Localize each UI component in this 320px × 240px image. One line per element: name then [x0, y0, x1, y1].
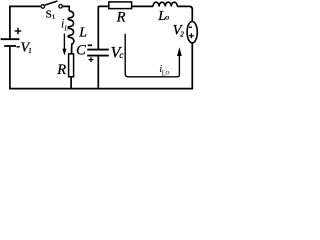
wire: battery bottom down to bottom rail [9, 46, 11, 89]
switch S1 contact circle right [59, 5, 63, 9]
wire: coil bottom to resistor R [71, 47, 73, 54]
wire: Lo to top-right corner and down to source V2 [177, 6, 192, 21]
svg-text:1: 1 [28, 47, 32, 55]
current arrow iL (down) [63, 34, 65, 50]
switch S1 blade [45, 1, 58, 5]
switch S1 contact circle left [41, 5, 45, 9]
current loop path iLo (L-shaped guide with up arrow) [125, 34, 179, 77]
svg-text:R: R [116, 10, 126, 26]
svg-text:2: 2 [180, 31, 184, 39]
plus sign of battery [15, 28, 22, 35]
minus sign above capacitor plate [88, 44, 92, 46]
capacitor branch: top corner and wire down to top plate [98, 6, 108, 49]
resistor R (left, vertical box) [69, 54, 74, 77]
svg-text:o: o [165, 13, 169, 22]
wire: switch to corner, down into inductor L [63, 6, 70, 11]
svg-text:L: L [78, 25, 87, 40]
svg-text:R: R [56, 62, 66, 78]
plus sign below capacitor plate [89, 57, 94, 62]
wire: capacitor bottom plate down to rail [97, 56, 99, 89]
wire: top R box to inductor Lo [132, 5, 153, 7]
minus sign inside V2 [189, 26, 192, 28]
wire: V2 bottom down to rail [191, 43, 193, 89]
capacitor C top plate [87, 49, 109, 51]
wire: left vertical from battery top up to top-left corner, then top wire to switch [10, 6, 41, 38]
svg-text:S: S [46, 9, 52, 21]
svg-text:1: 1 [52, 13, 55, 20]
inductor L (vertical cursive coil) [68, 11, 74, 48]
svg-text:C: C [76, 43, 86, 59]
svg-text:L: L [63, 23, 68, 32]
svg-text:c: c [119, 51, 124, 61]
bottom rail wire [9, 88, 193, 90]
resistor R (top, horizontal box) [109, 2, 132, 9]
capacitor C bottom plate [87, 55, 109, 57]
svg-text:O: O [166, 70, 170, 76]
inductor Lo (horizontal bumps) [153, 2, 177, 6]
arrowhead of iLo (up) [177, 47, 182, 56]
source V2 (ellipse) [187, 22, 197, 43]
wire: resistor bottom to rail [70, 77, 72, 89]
plus sign inside V2 [189, 33, 194, 38]
battery V1 top plate (long, +) [1, 38, 20, 40]
battery V1 bottom plate (short, -) [4, 45, 16, 47]
minus sign of battery [16, 46, 19, 48]
